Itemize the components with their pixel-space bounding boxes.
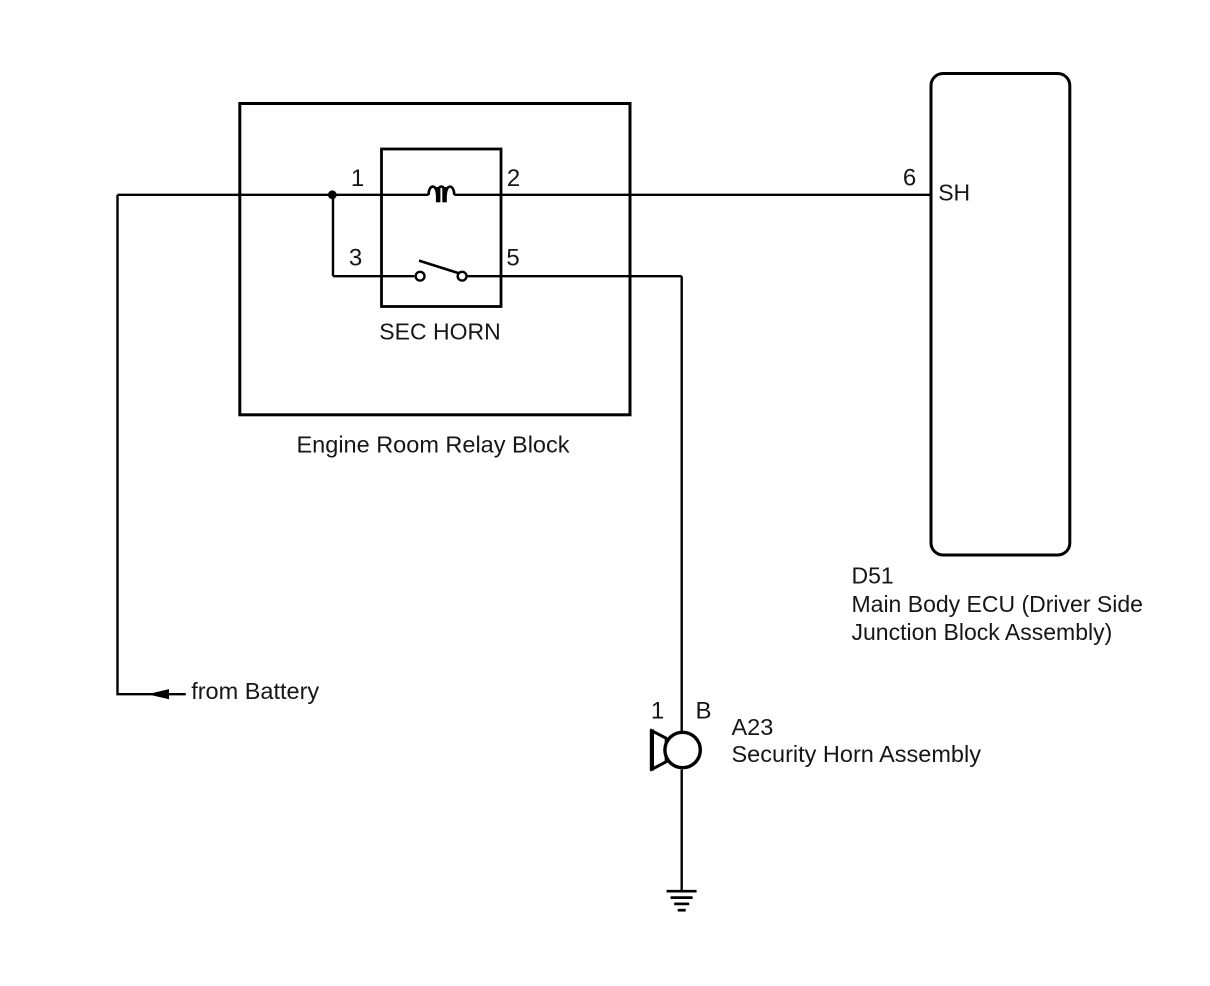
relay switch blade: [419, 261, 459, 274]
wire: switch to relay pin 5 and over to horn drop: [468, 275, 682, 277]
arrow: from Battery arrowhead: [148, 689, 170, 699]
svg-text:3: 3: [349, 245, 362, 272]
wire: battery feed to relay pin 1 (horizontal): [118, 194, 429, 196]
svg-text:2: 2: [507, 165, 520, 192]
wire: pin 3 horizontal into switch: [333, 275, 414, 277]
svg-text:A23: A23: [732, 714, 774, 740]
relay U1 inner box (SEC HORN): [382, 149, 502, 307]
relay switch contact right: [458, 272, 467, 281]
wire: horn to ground: [681, 770, 683, 892]
relay block outer box (Engine Room Relay Block): [240, 104, 630, 415]
horn A23 body circle: [665, 732, 700, 767]
node: junction dot on pin 1 wire: [328, 190, 337, 199]
ground: [667, 891, 697, 910]
svg-text:Security Horn Assembly: Security Horn Assembly: [732, 741, 982, 767]
svg-text:from Battery: from Battery: [191, 678, 319, 704]
svg-text:B: B: [695, 697, 711, 724]
svg-text:1: 1: [351, 165, 364, 192]
label: D51 Main Body ECU (Driver Side Junction Block Assembly): [852, 563, 1143, 646]
svg-text:1: 1: [651, 697, 664, 724]
label: A23 Security Horn Assembly: [732, 714, 982, 767]
relay switch contact left: [416, 272, 425, 281]
svg-text:SEC HORN: SEC HORN: [379, 318, 500, 344]
wire: drop from pin 5 wire down to horn: [681, 276, 683, 731]
svg-text:D51: D51: [852, 563, 894, 589]
wire: relay pin 2 to ECU pin 6: [454, 194, 929, 196]
relay coil: [429, 187, 455, 203]
connector D51 rounded box (Main Body ECU): [931, 74, 1070, 556]
horn A23 speaker bracket: [652, 729, 666, 770]
svg-text:Engine Room Relay Block: Engine Room Relay Block: [297, 431, 570, 457]
wire: junction down to pin 3 wire: [332, 195, 334, 276]
svg-text:5: 5: [506, 245, 519, 272]
svg-text:Junction Block Assembly): Junction Block Assembly): [852, 619, 1113, 645]
svg-text:SH: SH: [938, 180, 970, 206]
svg-text:6: 6: [903, 165, 916, 192]
svg-text:Main Body ECU (Driver Side: Main Body ECU (Driver Side: [852, 591, 1143, 617]
wire: left riser from battery (vertical + bottom horizontal): [118, 195, 186, 694]
